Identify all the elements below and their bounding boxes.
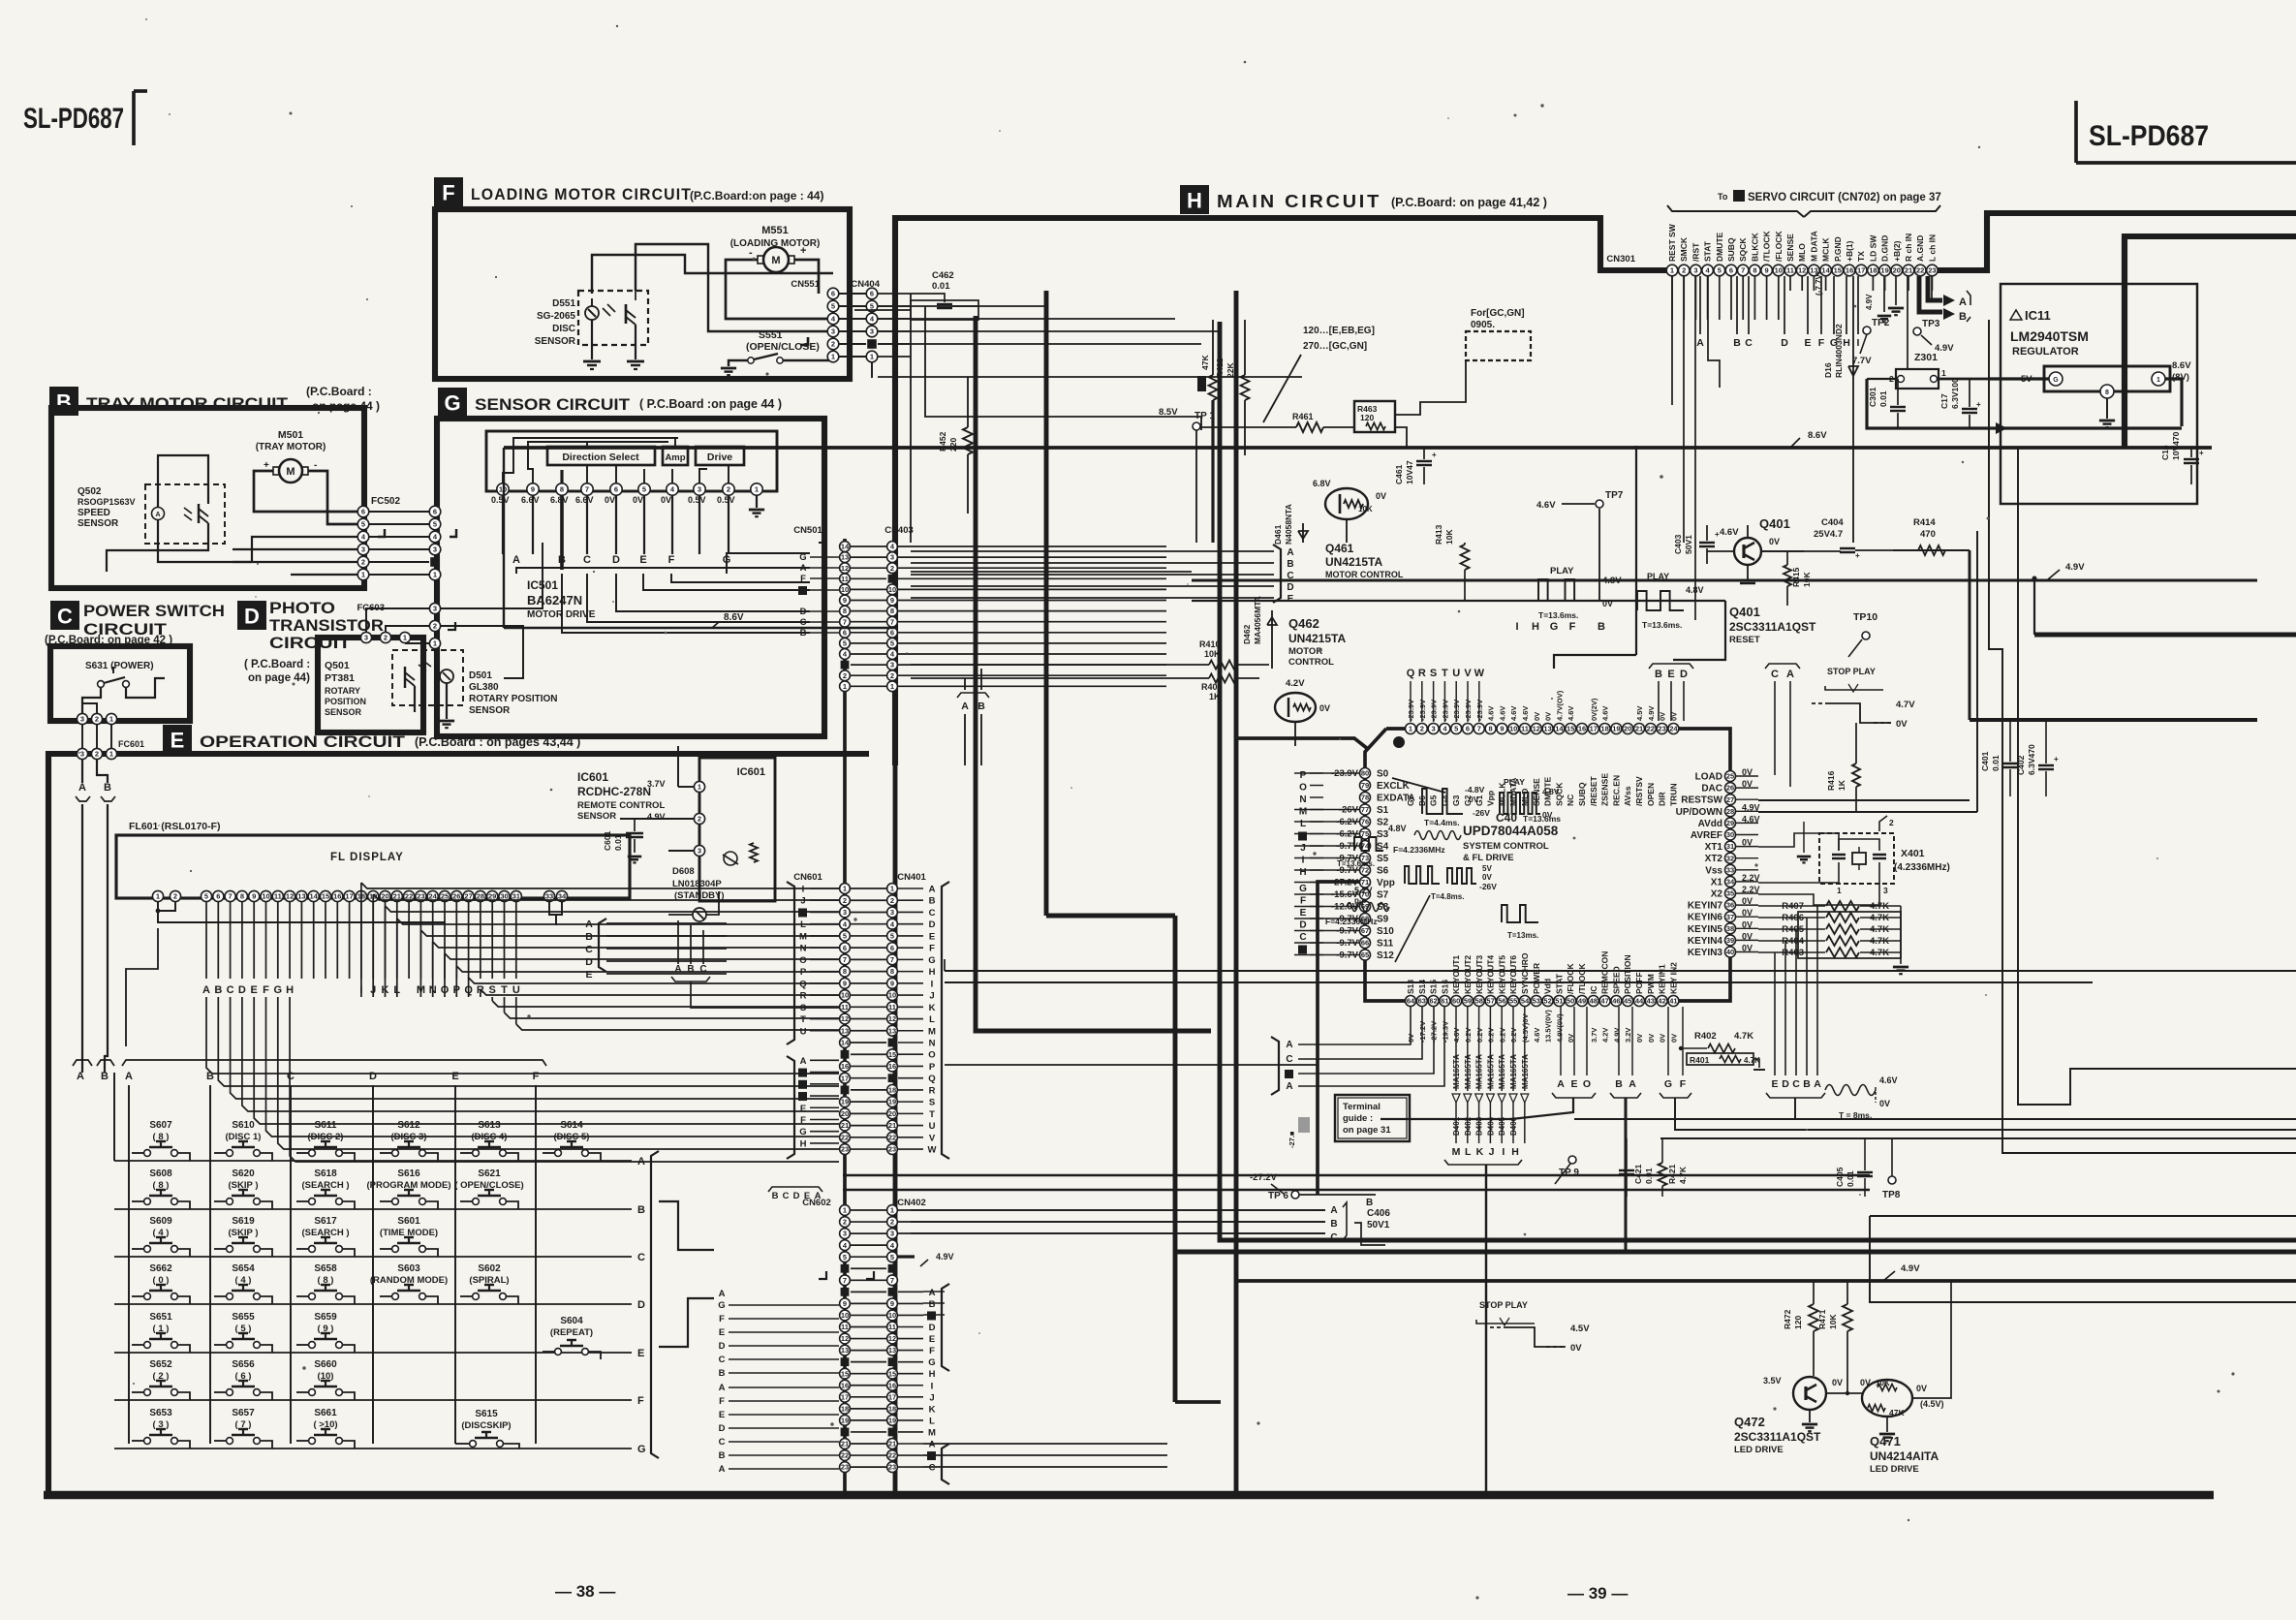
svg-text:J: J [1489, 1146, 1495, 1158]
svg-text:R461: R461 [1292, 412, 1314, 421]
S0 diagonal wire [1392, 778, 1445, 793]
svg-text:3: 3 [890, 908, 894, 917]
svg-text:2: 2 [1420, 725, 1424, 733]
D501 LED circle [440, 670, 453, 683]
svg-text:5.2V: 5.2V [1354, 886, 1373, 895]
svg-text:DMUTE: DMUTE [1715, 232, 1724, 262]
svg-text:38: 38 [1726, 924, 1734, 933]
section header B [49, 387, 78, 416]
svg-text:1: 1 [433, 571, 437, 579]
svg-text:11: 11 [1786, 266, 1794, 275]
svg-text:D: D [719, 1423, 726, 1434]
svg-text:S612: S612 [397, 1120, 420, 1131]
svg-text:/RESET: /RESET [1589, 775, 1598, 806]
svg-text:guide :: guide : [1343, 1113, 1373, 1124]
svg-text:(P.C.Board :: (P.C.Board : [306, 385, 372, 398]
svg-text:D16: D16 [1823, 362, 1833, 378]
svg-text:5: 5 [890, 932, 894, 941]
svg-text:PHOTO: PHOTO [269, 599, 335, 617]
svg-text:SYNCHRO: SYNCHRO [1520, 952, 1530, 994]
wires CN601-CN401 across [851, 888, 886, 889]
svg-text:S631 (POWER): S631 (POWER) [85, 661, 154, 671]
KEYIN wires down [1816, 906, 1818, 1075]
svg-text:13: 13 [841, 1026, 849, 1035]
svg-text:B: B [1959, 311, 1967, 323]
svg-text:22: 22 [841, 1133, 849, 1141]
svg-text:35: 35 [1726, 889, 1734, 898]
CN501 top ground bracket [819, 536, 825, 543]
svg-text:/FLOCK: /FLOCK [1566, 963, 1575, 994]
svg-text:1: 1 [2156, 377, 2160, 384]
svg-text:D: D [1299, 920, 1306, 931]
scan speckles [753, 258, 756, 261]
svg-text:A: A [815, 1191, 822, 1201]
svg-text:LED DRIVE: LED DRIVE [1734, 1445, 1784, 1455]
IC501 inner wiring [503, 438, 678, 483]
svg-text:5: 5 [843, 1253, 847, 1262]
svg-text:G3: G3 [1451, 794, 1461, 806]
svg-text:6.8V: 6.8V [1313, 479, 1331, 488]
svg-text:-: - [749, 247, 753, 259]
svg-text:F: F [1680, 1078, 1687, 1090]
svg-text:FC502: FC502 [371, 496, 400, 507]
svg-text:80: 80 [1361, 769, 1369, 778]
ground bracket near S551 [800, 337, 808, 345]
svg-text:D: D [929, 1323, 936, 1333]
svg-text:OPEN: OPEN [1646, 783, 1656, 806]
svg-text:2: 2 [843, 671, 847, 680]
svg-text:1: 1 [1409, 725, 1412, 733]
FL601 pins 1 2 wiring [158, 902, 175, 911]
key matrix row wires [114, 1160, 632, 1162]
svg-text:— 39 —: — 39 — [1567, 1584, 1628, 1603]
IC401 UPD78044A058 body [1365, 729, 1730, 1001]
svg-text:C301: C301 [1868, 387, 1877, 407]
svg-text:S621: S621 [478, 1168, 501, 1179]
wires FC502 across [369, 511, 429, 513]
Q502 phototransistor [198, 504, 200, 523]
svg-text:CN401: CN401 [897, 872, 926, 883]
svg-text:T: T [929, 1109, 935, 1120]
svg-text:7: 7 [890, 617, 894, 626]
svg-text:A: A [800, 563, 807, 574]
svg-text:5: 5 [1718, 266, 1722, 275]
svg-text:13: 13 [297, 892, 305, 901]
svg-text:1: 1 [843, 885, 847, 893]
svg-text:SQCK: SQCK [1738, 237, 1748, 262]
svg-text:POWER SWITCH: POWER SWITCH [83, 602, 225, 620]
svg-text:1: 1 [831, 353, 835, 361]
svg-text:L ch IN: L ch IN [1927, 234, 1937, 262]
svg-text:1: 1 [870, 353, 874, 361]
IC401 right pin column [1725, 771, 1736, 782]
svg-text:17: 17 [1857, 266, 1865, 275]
D501 dashed box [392, 650, 463, 705]
svg-text:B: B [687, 964, 694, 975]
svg-text:F=4.2336MHz: F=4.2336MHz [1393, 845, 1445, 855]
svg-text:+: + [1855, 551, 1860, 560]
svg-text:T=4.8ms.: T=4.8ms. [1431, 892, 1464, 901]
svg-text:0.01: 0.01 [613, 834, 623, 851]
svg-text:21: 21 [841, 1121, 849, 1130]
svg-text:1: 1 [843, 1206, 847, 1215]
svg-text:47K: 47K [1889, 1408, 1905, 1417]
svg-text:RLIN4003ND2: RLIN4003ND2 [1834, 324, 1844, 378]
svg-text:P.GND: P.GND [1833, 236, 1843, 262]
svg-text:E: E [1804, 337, 1811, 349]
svg-text:14: 14 [310, 892, 319, 901]
connector pins on C box bottom [77, 713, 87, 724]
wires ACBA to IC401 bottom verticals [1298, 1007, 1411, 1044]
svg-text:0.5V: 0.5V [688, 495, 706, 505]
sensor circuit box G [437, 419, 824, 736]
svg-text:Vdd: Vdd [1543, 979, 1553, 994]
main circuit H second top border right [2125, 236, 2296, 448]
svg-text:UN4214AITA: UN4214AITA [1870, 1449, 1939, 1463]
svg-text:9: 9 [1500, 725, 1504, 733]
svg-text:C421: C421 [1633, 1164, 1643, 1184]
svg-text:UN4215TA: UN4215TA [1325, 555, 1382, 569]
svg-text:10: 10 [888, 1311, 896, 1320]
svg-text:S609: S609 [149, 1216, 172, 1227]
svg-text:REC.EN: REC.EN [1611, 775, 1621, 806]
ground pin22 [1918, 276, 1920, 291]
svg-text:A: A [961, 701, 969, 712]
thick wire from CN404 region down [1044, 291, 1049, 916]
svg-text:-27.2V: -27.2V [1250, 1172, 1278, 1183]
svg-text:4.6V: 4.6V [1487, 706, 1496, 721]
svg-text:TP 6: TP 6 [1268, 1191, 1288, 1201]
svg-text:0V: 0V [1542, 810, 1553, 820]
svg-text:M: M [799, 931, 807, 942]
svg-text:EXCLK: EXCLK [1377, 781, 1411, 792]
svg-text:D551: D551 [552, 298, 575, 309]
svg-text:22: 22 [888, 1451, 896, 1460]
svg-text:8.6V: 8.6V [2172, 360, 2191, 371]
svg-text:Q401: Q401 [1759, 516, 1790, 531]
CN404 line extensions [878, 305, 1046, 307]
wires CN402 bottom letters right [923, 1443, 1167, 1445]
svg-text:23: 23 [888, 1463, 896, 1472]
svg-text:1: 1 [890, 682, 894, 691]
ground under D551 LED [583, 360, 601, 363]
svg-text:-26V: -26V [1479, 882, 1497, 891]
svg-text:R402: R402 [1694, 1031, 1717, 1042]
svg-text:Q502: Q502 [78, 486, 102, 497]
thick horizontal 4.9V row [1175, 1250, 2296, 1255]
wires CN602-CN402 across [851, 1209, 886, 1211]
IC11 regulator outer box [2001, 284, 2197, 504]
svg-text:AVss: AVss [1623, 786, 1632, 806]
svg-text:22: 22 [1647, 725, 1655, 733]
svg-text:C: C [719, 1437, 726, 1448]
svg-text:I: I [802, 885, 805, 895]
svg-text:1: 1 [361, 571, 365, 579]
svg-text:F: F [929, 944, 935, 954]
svg-text:4.9V: 4.9V [647, 812, 666, 822]
svg-text:J: J [929, 991, 934, 1002]
svg-text:17: 17 [841, 1074, 849, 1082]
svg-text:B: B [1598, 621, 1605, 633]
svg-text:BA6247N: BA6247N [527, 593, 582, 607]
svg-text:3: 3 [361, 545, 365, 554]
svg-text:+: + [2199, 449, 2204, 457]
svg-text:L: L [929, 1416, 935, 1426]
svg-text:2: 2 [433, 622, 437, 631]
svg-text:H: H [1511, 1146, 1519, 1158]
matrix row end brace right [651, 1151, 659, 1458]
svg-text:KEYOUT5: KEYOUT5 [1497, 955, 1506, 994]
svg-text:2: 2 [95, 750, 99, 759]
svg-text:5: 5 [831, 302, 835, 311]
section header C [50, 601, 79, 630]
svg-text:0V: 0V [1319, 703, 1330, 713]
svg-text:CN403: CN403 [884, 525, 914, 536]
svg-text:11: 11 [841, 1003, 849, 1012]
svg-text:MCLK: MCLK [1821, 237, 1831, 262]
svg-text:1: 1 [109, 750, 113, 759]
MA165TA diode triangles [1452, 1094, 1460, 1103]
svg-text:C: C [929, 908, 936, 919]
svg-text:S661: S661 [314, 1408, 337, 1418]
svg-text:( P.C.Board :: ( P.C.Board : [244, 659, 310, 670]
svg-text:To: To [1718, 192, 1728, 202]
svg-text:A: A [929, 1440, 936, 1450]
svg-text:/FLOCK: /FLOCK [1774, 231, 1784, 262]
svg-text:IC601: IC601 [737, 766, 765, 778]
svg-text:16: 16 [888, 1381, 896, 1389]
svg-text:3: 3 [698, 847, 701, 856]
svg-text:15: 15 [888, 1050, 896, 1059]
svg-text:K: K [1476, 1146, 1484, 1158]
svg-text:C404: C404 [1821, 517, 1844, 528]
svg-text:2: 2 [1682, 266, 1686, 275]
regulator ground [2106, 398, 2108, 419]
svg-text:21: 21 [1635, 725, 1643, 733]
thick vertical wire center pair [1220, 322, 2296, 1240]
svg-text:LED DRIVE: LED DRIVE [1870, 1464, 1919, 1475]
svg-text:0.01: 0.01 [1991, 755, 2001, 771]
svg-text:15: 15 [1567, 725, 1574, 733]
svg-text:23: 23 [888, 1145, 896, 1154]
IC501 pin row [497, 483, 509, 495]
svg-text:S619: S619 [232, 1216, 255, 1227]
svg-text:K: K [929, 1404, 936, 1415]
svg-text:21: 21 [841, 1440, 849, 1449]
svg-text:470: 470 [1920, 529, 1936, 540]
svg-text:SL-PD687: SL-PD687 [23, 103, 124, 135]
svg-text:A: A [719, 1383, 726, 1393]
svg-text:RCDHC-278N: RCDHC-278N [577, 785, 651, 798]
svg-text:A: A [1629, 1078, 1636, 1090]
svg-text:47: 47 [1600, 997, 1608, 1006]
svg-text:57: 57 [1486, 997, 1494, 1006]
svg-text:L: L [1300, 819, 1306, 829]
svg-text:52: 52 [1543, 997, 1551, 1006]
svg-text:11: 11 [1521, 725, 1529, 733]
svg-text:L: L [1465, 1146, 1472, 1158]
svg-text:KEYOUT6: KEYOUT6 [1508, 955, 1518, 994]
svg-text:15: 15 [1834, 266, 1842, 275]
svg-text:2: 2 [831, 340, 835, 349]
rails from main to right verticals [1758, 799, 1970, 801]
R463 resistor 120 [1354, 401, 1395, 432]
svg-text:4.6V: 4.6V [1720, 527, 1739, 538]
svg-text:B: B [1330, 1219, 1337, 1230]
svg-text:4.9V: 4.9V [2065, 562, 2085, 573]
IC401 top pin row [1406, 724, 1416, 734]
svg-text:76: 76 [1361, 818, 1369, 826]
svg-text:G: G [1550, 621, 1559, 633]
EXCLK waveform [1422, 789, 1463, 814]
svg-text:58: 58 [1475, 997, 1483, 1006]
long wires from F box into H [854, 309, 911, 311]
D551 dashed box [578, 291, 648, 345]
svg-text:20: 20 [841, 1109, 849, 1118]
D501 wiring to grounds [446, 683, 448, 719]
svg-text:9: 9 [531, 485, 535, 494]
svg-text:A: A [719, 1289, 726, 1299]
svg-text:S618: S618 [314, 1168, 337, 1179]
svg-text:5V: 5V [1482, 864, 1492, 873]
svg-text:6: 6 [831, 290, 835, 298]
svg-text:6: 6 [890, 944, 894, 952]
svg-text:0V: 0V [605, 495, 615, 505]
svg-text:H: H [1299, 867, 1306, 878]
R409 resistor 1K [1209, 674, 1236, 683]
svg-text:S662: S662 [149, 1263, 172, 1274]
svg-text:5: 5 [890, 639, 894, 648]
H left border through connectors [893, 765, 898, 1495]
svg-text:R414: R414 [1913, 517, 1936, 528]
svg-text:KEYIN4: KEYIN4 [1688, 936, 1723, 947]
svg-text:4.8V: 4.8V [1388, 824, 1407, 833]
svg-text:12: 12 [888, 1014, 896, 1023]
svg-text:E: E [1771, 1078, 1778, 1090]
long wire y430 to TP1 vertical [938, 416, 1201, 418]
svg-text:I: I [1302, 856, 1305, 866]
svg-text:D: D [637, 1299, 645, 1311]
svg-text:G: G [799, 552, 806, 563]
svg-text:10: 10 [1775, 266, 1783, 275]
svg-text:B: B [977, 701, 985, 712]
svg-text:D403: D403 [1475, 1116, 1484, 1136]
svg-text:60: 60 [1452, 997, 1460, 1006]
svg-text:0.01: 0.01 [1878, 390, 1888, 407]
svg-text:120: 120 [1793, 1316, 1803, 1329]
svg-text:8: 8 [560, 485, 564, 494]
svg-text:G: G [637, 1444, 646, 1455]
matrix to CN602 jog wires [659, 1201, 714, 1250]
svg-text:-27.■: -27.■ [1288, 1131, 1296, 1148]
svg-text:CONTROL: CONTROL [1288, 657, 1334, 668]
ground bracket FC502 pin4 [378, 529, 385, 537]
svg-text:9: 9 [252, 892, 256, 901]
svg-text:F: F [1300, 896, 1306, 907]
svg-text:F=4.2336MHz: F=4.2336MHz [1325, 917, 1378, 926]
svg-text:I: I [1502, 1146, 1505, 1158]
wire M551 to CN551 [726, 260, 833, 319]
svg-text:SENSOR: SENSOR [325, 707, 362, 717]
svg-text:S: S [929, 1098, 935, 1108]
svg-text:7: 7 [890, 955, 894, 964]
svg-text:7: 7 [229, 892, 233, 901]
svg-text:C462: C462 [932, 270, 954, 281]
svg-text:4.8V: 4.8V [1686, 585, 1704, 595]
svg-text:C: C [1792, 1078, 1800, 1090]
svg-text:S614: S614 [560, 1120, 583, 1131]
svg-text:R401: R401 [1690, 1055, 1710, 1065]
section header D [237, 601, 266, 630]
svg-text:48: 48 [1590, 997, 1598, 1006]
section header E [163, 725, 192, 754]
R401 resistor 4.7K [1687, 1053, 1753, 1065]
svg-text:G4: G4 [1440, 794, 1449, 806]
wires upper long rails [911, 571, 1192, 573]
svg-text:C: C [287, 1071, 295, 1082]
svg-text:0V: 0V [1602, 599, 1613, 608]
svg-text:on page 44): on page 44) [248, 672, 310, 684]
svg-text:F: F [533, 1071, 540, 1082]
svg-text:0V: 0V [1896, 719, 1908, 730]
svg-text:3: 3 [890, 553, 894, 562]
svg-text:25V4.7: 25V4.7 [1814, 529, 1843, 540]
svg-text:G: G [928, 955, 935, 966]
svg-text:42: 42 [1658, 997, 1665, 1006]
svg-text:5: 5 [642, 485, 646, 494]
svg-text:SENSOR: SENSOR [535, 336, 576, 347]
svg-text:K: K [929, 1003, 936, 1013]
svg-text:64: 64 [1407, 997, 1415, 1006]
svg-text:A: A [1287, 547, 1293, 558]
svg-text:4.2V: 4.2V [1286, 678, 1305, 689]
svg-text:SYSTEM CONTROL: SYSTEM CONTROL [1463, 841, 1549, 852]
svg-text:T=13ms.: T=13ms. [1507, 931, 1538, 940]
svg-text:L: L [929, 1014, 935, 1025]
svg-text:STAT: STAT [1703, 240, 1713, 262]
svg-text:N: N [800, 944, 807, 954]
svg-text:V: V [1464, 668, 1472, 679]
CN301 long drops [1671, 276, 1673, 405]
svg-text:F: F [442, 180, 454, 204]
svg-text:/TLOCK: /TLOCK [1762, 231, 1772, 262]
IC11 labels [2010, 310, 2022, 320]
svg-text:D: D [719, 1341, 726, 1352]
svg-text:19: 19 [841, 1417, 849, 1425]
svg-text:20: 20 [1893, 266, 1901, 275]
svg-text:10V47: 10V47 [1405, 460, 1414, 484]
svg-text:3: 3 [1883, 886, 1888, 895]
svg-text:S604: S604 [560, 1316, 583, 1326]
svg-text:11: 11 [841, 1323, 849, 1331]
svg-text:1: 1 [843, 682, 847, 691]
svg-text:W: W [928, 1145, 937, 1156]
svg-text:0V: 0V [1832, 1378, 1843, 1387]
svg-text:11: 11 [841, 575, 849, 583]
svg-text:E: E [800, 1104, 806, 1114]
svg-text:J: J [800, 896, 805, 907]
svg-text:PT381: PT381 [325, 672, 355, 684]
svg-text:120…[E,EB,EG]: 120…[E,EB,EG] [1303, 326, 1375, 336]
ground brackets CN602 CN402 pin6 [819, 1271, 826, 1279]
svg-text:EXDATA: EXDATA [1377, 794, 1415, 804]
svg-text:AVdd: AVdd [1698, 819, 1722, 829]
svg-text:A: A [1959, 296, 1967, 308]
svg-text:Q462: Q462 [1288, 616, 1319, 631]
R411 resistor 47K [1197, 376, 1206, 391]
svg-text:S0: S0 [1377, 769, 1389, 780]
svg-text:10: 10 [841, 1311, 849, 1320]
